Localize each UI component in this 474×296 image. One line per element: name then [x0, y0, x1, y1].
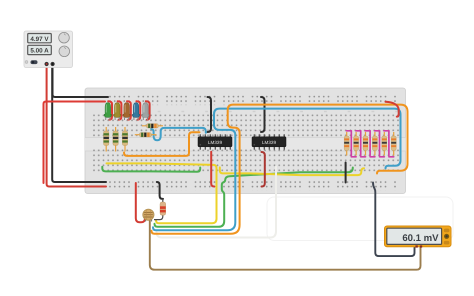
multimeter M1 [385, 226, 452, 248]
svg-text:LM339: LM339 [262, 140, 276, 145]
wire black to resistor R8 [157, 182, 163, 199]
wire red right column [386, 102, 399, 117]
wire green left long [102, 167, 200, 172]
wire red LED jumper 1 [108, 101, 112, 119]
wire green right to LDR [155, 168, 353, 227]
resistor R4 horizontal [142, 124, 163, 128]
LED D1 green [104, 103, 111, 120]
wire yellow left long [107, 163, 217, 223]
breadboard [85, 88, 406, 194]
wire blue big loop [153, 109, 401, 231]
wire white jumper [157, 167, 277, 238]
LED D2 yellow [114, 103, 121, 120]
power supply PS1 [24, 31, 73, 68]
white panel [267, 197, 453, 241]
wire red LED jumper 3 [127, 101, 131, 119]
svg-text:4.97 V: 4.97 V [30, 36, 49, 43]
resistor R5 horizontal [135, 133, 157, 137]
wire supply black to top rail [53, 64, 109, 97]
wire red top rail link [44, 102, 106, 184]
wire orange big loop [152, 105, 408, 234]
svg-text:LM339: LM339 [208, 140, 222, 145]
LED D3 orange [123, 103, 130, 120]
wire yellow right long [220, 167, 364, 175]
wire dark red IC2 to rail [262, 152, 265, 187]
wire black top rail to bottom rail link [52, 66, 106, 182]
wire black multimeter probe [373, 183, 415, 257]
svg-text:5.00 A: 5.00 A [30, 48, 49, 55]
wire red below IC1 [211, 152, 214, 187]
magenta ladder bottom dashes [351, 156, 393, 158]
wire red LED jumper 2 [118, 101, 122, 119]
resistor R2 vertical [113, 127, 118, 152]
column labels [110, 111, 398, 112]
resistor R8 bottom [154, 199, 166, 220]
resistor R3 vertical [122, 127, 127, 152]
wire black short right [345, 163, 347, 183]
wire red to LDR [136, 183, 145, 222]
wire brown multimeter probe [150, 219, 421, 270]
wire black bracket IC2 power [261, 97, 265, 132]
ladder resistors R10-R15 [344, 132, 396, 156]
wire blue U1 [151, 128, 206, 140]
magenta ladder verticals [351, 131, 389, 156]
wire orange small [124, 132, 200, 156]
IC U1 LM339 [198, 134, 232, 149]
photoresistor LDR1 [143, 209, 154, 221]
magenta ladder top dashes [346, 130, 389, 132]
wire black bracket IC1 power [208, 97, 212, 132]
IC U2 LM339 [252, 134, 286, 149]
svg-text:60.1 mV: 60.1 mV [402, 233, 439, 244]
resistor R1 vertical [104, 127, 109, 152]
LED D5 white [142, 103, 149, 120]
wire red LED jumper 4 [136, 101, 140, 119]
LED D4 blue [133, 103, 140, 120]
wire red LED jumper 5 [146, 101, 150, 119]
wire supply red to bottom rail [47, 64, 106, 187]
